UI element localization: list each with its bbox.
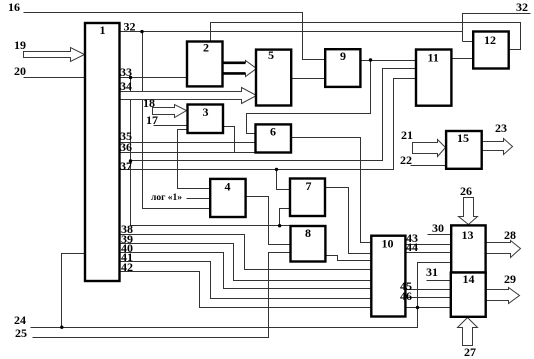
arrow 27 into block 14 [458, 318, 478, 346]
block 8 [291, 226, 326, 262]
svg-text:30: 30 [432, 221, 444, 235]
svg-text:8: 8 [305, 226, 311, 240]
wire 44 [406, 252, 452, 254]
block 6 [256, 124, 292, 152]
wire 32 main run [120, 31, 463, 33]
svg-text:12: 12 [484, 33, 496, 47]
wire 33 branch to blocks 7 and 8 [131, 225, 291, 227]
svg-text:4: 4 [225, 180, 231, 194]
block 12 [473, 32, 509, 69]
block 2 [187, 42, 223, 87]
arrow block 2 to block 5 [223, 61, 257, 77]
wire 25 run to block 8 [33, 253, 291, 338]
junction dot wire 33 [129, 76, 132, 79]
link block 3 to block 4 [178, 130, 211, 189]
branch up to block 7 [280, 209, 291, 226]
svg-text:36: 36 [120, 140, 132, 154]
svg-text:44: 44 [406, 240, 418, 254]
arrow 34 into block 5 [120, 88, 257, 104]
svg-text:32: 32 [516, 0, 528, 14]
svg-text:32: 32 [124, 20, 136, 34]
wire 38 staircase [120, 235, 372, 270]
wire 39 staircase [120, 244, 372, 281]
wire 36 to block 6 [120, 152, 257, 154]
svg-text:6: 6 [270, 125, 276, 139]
wire 31 stub [427, 280, 451, 282]
block 4 [210, 179, 245, 217]
block 5 [256, 50, 291, 106]
arrow 29 out of block 14 [486, 288, 520, 304]
svg-text:24: 24 [14, 313, 26, 327]
wire 35 to block 6 [120, 142, 256, 144]
svg-text:33: 33 [120, 65, 132, 79]
svg-text:31: 31 [426, 265, 438, 279]
wire 17 [154, 125, 188, 127]
block 10 output shared with 13 and 14 [406, 307, 451, 309]
arrow 18 into block 3 [153, 105, 187, 118]
junction dot wire 33 branch [129, 159, 132, 162]
wire 46 [406, 297, 451, 299]
log 1 wire [187, 198, 211, 200]
svg-text:15: 15 [457, 131, 469, 145]
svg-text:26: 26 [460, 184, 472, 198]
wire 43 [406, 244, 452, 246]
block 14 [451, 273, 486, 317]
wire 37 branch to block 7 [277, 170, 291, 190]
wire 33 branch to block 11 [131, 69, 417, 161]
block 9 [325, 49, 360, 87]
svg-text:лог «1»: лог «1» [151, 193, 182, 203]
wire 32 branch down to block 4 [143, 32, 211, 209]
svg-text:19: 19 [14, 38, 26, 52]
svg-text:18: 18 [143, 96, 155, 110]
svg-text:20: 20 [14, 64, 26, 78]
arrow 26 into block 13 [459, 198, 478, 225]
svg-text:27: 27 [464, 345, 476, 359]
arrow 23 out of block 15 [482, 139, 513, 155]
svg-text:1: 1 [100, 23, 106, 37]
arrow 19 into block 1 [24, 48, 85, 62]
svg-text:46: 46 [400, 289, 412, 303]
svg-text:34: 34 [120, 79, 132, 93]
block 13 [451, 225, 485, 272]
block 3 output into wire 36 [223, 127, 235, 153]
wire 33 to block 2 [120, 77, 187, 79]
wire 8 to 10 [326, 256, 372, 261]
wire 30 stub [428, 234, 452, 236]
svg-text:25: 25 [15, 326, 27, 340]
branch 9 down to block 6 [247, 61, 371, 134]
wire 9 to 11 [361, 60, 417, 62]
block 10 [371, 236, 405, 317]
svg-text:3: 3 [203, 105, 209, 119]
wire 20 [24, 77, 87, 79]
wire 32 stub into block 12 [463, 41, 474, 43]
wire 32 top-right run [463, 14, 531, 42]
svg-text:14: 14 [463, 272, 475, 286]
svg-text:13: 13 [462, 228, 474, 242]
svg-text:16: 16 [8, 0, 20, 14]
svg-text:22: 22 [400, 153, 412, 167]
svg-text:10: 10 [382, 237, 394, 251]
wire 24 long run [31, 263, 452, 328]
feedback net from block 12 to block 2 top [211, 23, 521, 50]
wire 22 stub [411, 165, 447, 167]
svg-text:21: 21 [401, 128, 413, 142]
svg-text:37: 37 [120, 159, 132, 173]
junction dot wire 24 right [416, 306, 419, 309]
wire 45 [406, 289, 451, 291]
wire 7 to 10 [325, 188, 372, 254]
svg-text:42: 42 [121, 260, 133, 274]
svg-text:7: 7 [306, 179, 312, 193]
block 3 [188, 105, 224, 134]
wire 4 to 8 [246, 197, 291, 245]
svg-text:9: 9 [340, 49, 346, 63]
wire 6 to 10 [291, 138, 372, 243]
junction dot wire 32 [140, 30, 143, 33]
wire 40 staircase [120, 253, 372, 289]
svg-text:2: 2 [203, 41, 209, 55]
svg-text:11: 11 [428, 51, 439, 65]
wire 5 to 9 [292, 78, 326, 80]
junction dot wire 24 left [60, 326, 63, 329]
arrow 28 out of block 13 [486, 241, 521, 258]
junction dot block 8 input [278, 224, 281, 227]
wire 42 staircase [120, 272, 372, 308]
wire 33 branch vertical [130, 78, 132, 226]
wire 24 branch into block 1 [62, 254, 85, 328]
junction dot 9 to 11 [369, 58, 372, 61]
wire 37 long run [120, 79, 417, 170]
block 15 [446, 131, 482, 169]
svg-text:23: 23 [495, 121, 507, 135]
wire 16 horizontal [24, 13, 326, 60]
junction dot wire 37 [275, 168, 278, 171]
svg-text:29: 29 [504, 272, 516, 286]
block 1 [85, 23, 120, 281]
block 7 [290, 179, 325, 217]
wire 41 staircase [120, 262, 372, 299]
svg-text:28: 28 [504, 228, 516, 242]
block 11 [416, 50, 451, 106]
svg-text:17: 17 [146, 113, 158, 127]
arrow 21 into block 15 [413, 140, 446, 157]
wire 11 to 12 [452, 58, 474, 60]
svg-text:5: 5 [268, 48, 274, 62]
